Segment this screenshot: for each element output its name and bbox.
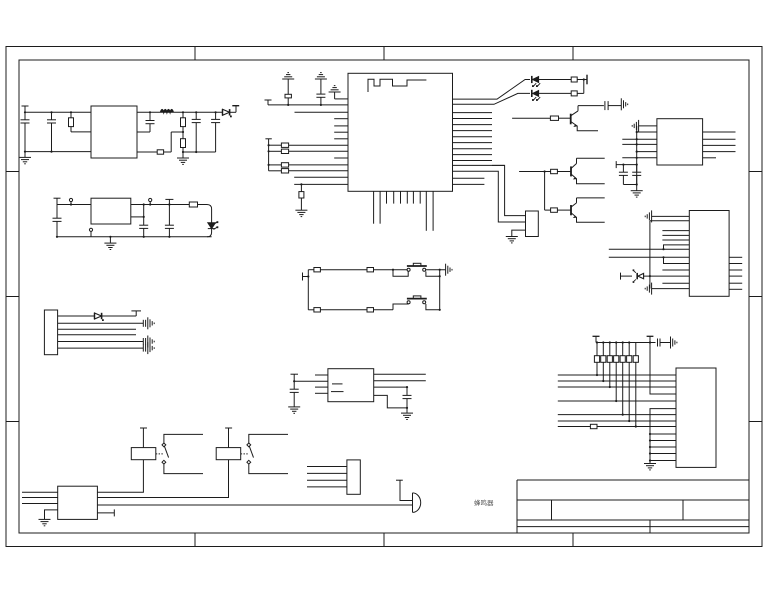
svg-text:蜂鸣器: 蜂鸣器 [474, 498, 494, 507]
